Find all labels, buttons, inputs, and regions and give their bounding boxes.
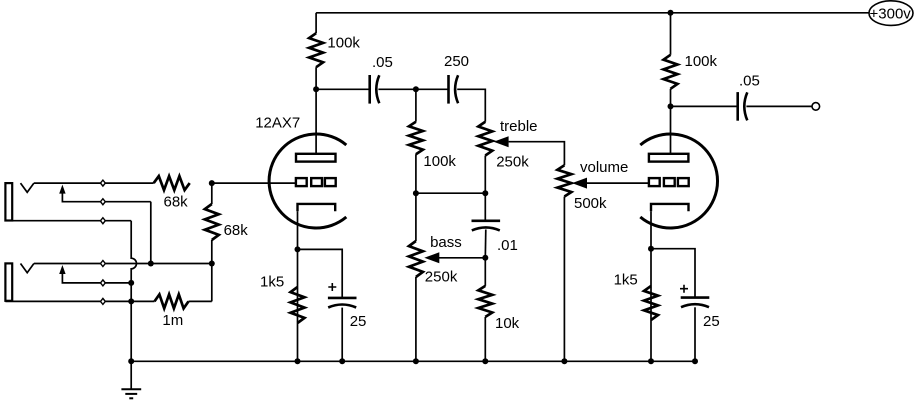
wire tone bottom [416, 192, 485, 194]
jack J1 sleeve pin [101, 218, 106, 224]
label .05 C1 [372, 54, 393, 71]
label 100k R1 [327, 35, 360, 52]
node bus c5 [692, 358, 698, 364]
power +300v supply [869, 1, 913, 26]
tube V1 envelope [269, 134, 346, 228]
svg-text:.05: .05 [739, 72, 760, 89]
resistor R7 68k grid stopper [154, 176, 190, 190]
wire top bus to R5 [670, 13, 672, 55]
jack J2 sleeve pin [101, 298, 106, 304]
jack J2 switch contact [59, 265, 131, 283]
wire J1 switch down to row4 [150, 202, 152, 264]
wire V1 cathode down [297, 211, 299, 361]
svg-text:+300v: +300v [870, 6, 912, 23]
node bus k2 [648, 358, 654, 364]
potentiometer VR2 bass 250k [409, 241, 439, 277]
node grid V1 input [209, 180, 215, 186]
node bus bass [413, 358, 419, 364]
jack J2 tip contact [21, 264, 34, 273]
wire bass wiper [439, 257, 486, 259]
wire C2 to treble pot [457, 89, 485, 121]
wire treble wiper to volume [509, 142, 565, 166]
wire plate node to C1 [316, 88, 370, 90]
svg-text:volume: volume [580, 159, 628, 176]
tube V1 plate [296, 154, 336, 162]
node bass wiper junction [482, 255, 488, 261]
wire V2 plate node to plate [670, 106, 672, 153]
node plate V2 [668, 103, 674, 109]
svg-text:25: 25 [350, 313, 367, 330]
wire C6 to output terminal [746, 105, 812, 107]
wire row4 to 1m corner [211, 264, 213, 302]
node bus 10k [482, 358, 488, 364]
wire C4 to ground bus [341, 308, 343, 362]
svg-text:1k5: 1k5 [260, 274, 284, 291]
wire 68k node down [211, 183, 213, 204]
svg-text:.01: .01 [497, 237, 518, 254]
svg-text:68k: 68k [224, 222, 249, 239]
wire top B+ bus [316, 12, 869, 14]
resistor R6 1k5 cathode V2 [644, 286, 658, 320]
svg-text:250k: 250k [496, 154, 529, 171]
label 250k VR2 [425, 268, 458, 285]
jack J1 switch contact [59, 185, 151, 202]
node R8 bottom row4 [209, 261, 215, 267]
wire 1m to corner [189, 300, 212, 302]
resistor R4 1k5 cathode V1 [291, 287, 305, 323]
label 250 C2 [444, 53, 469, 70]
wire top bus to R1 [315, 13, 317, 33]
tube V2 grid [649, 178, 689, 186]
svg-text:25: 25 [703, 313, 720, 330]
wire volume pot to ground bus [563, 197, 565, 362]
wire C1 to node [378, 88, 416, 90]
jack J1 body [5, 183, 12, 220]
capacitor C1 .05 coupling [370, 75, 380, 104]
wire treble bottom to C3 [484, 193, 486, 221]
node cathode V1 [295, 246, 301, 252]
label 250k VR1 [496, 154, 529, 171]
wire node to C2 [416, 88, 449, 90]
svg-text:68k: 68k [164, 194, 189, 211]
tube V1 cathode [298, 204, 336, 211]
wire slope node to bass pot [415, 193, 417, 241]
ground symbol [121, 361, 141, 398]
node treble bottom [482, 190, 488, 196]
wire J1 sleeve row [5, 220, 131, 222]
wire C3 to bass wiper node [484, 230, 487, 258]
wire grid V1 [212, 182, 296, 184]
capacitor C3 .01 [472, 221, 501, 231]
capacitor C6 .05 output [738, 92, 748, 121]
svg-text:250: 250 [444, 53, 469, 70]
node bus c4 [339, 358, 345, 364]
label treble [500, 118, 538, 135]
wire tone node down [415, 89, 417, 121]
wire V2 cathode down [650, 211, 652, 361]
label 100k R2 [423, 153, 456, 170]
wire treble pot to bottom node [484, 156, 486, 194]
svg-text:250k: 250k [425, 268, 458, 285]
label 1m R9 [162, 312, 183, 329]
node top bus / plate resistor 2 junction [668, 10, 674, 16]
node bus k1 [295, 358, 301, 364]
tube V1 grid [296, 178, 336, 186]
node tone input [413, 86, 419, 92]
label 12AX7 [255, 115, 300, 132]
wire J2 tip row [34, 263, 151, 265]
wire V2 plate node to C6 [671, 105, 738, 107]
wire C3 node to R3 [484, 258, 486, 286]
label .05 C6 [739, 72, 760, 89]
resistor R1 100k plate load V1 [309, 33, 323, 67]
potentiometer VR3 volume 500k [557, 165, 587, 196]
resistor R2 100k slope [409, 122, 423, 155]
wire cathode branch to C5 [651, 249, 695, 298]
label 1k5 R6 [614, 272, 638, 289]
capacitor C5 25 bypass [680, 285, 709, 308]
svg-text:100k: 100k [685, 53, 718, 70]
node bus gnd [128, 358, 134, 364]
svg-text:.05: .05 [372, 54, 393, 71]
label 25 C5 [703, 313, 720, 330]
svg-text:12AX7: 12AX7 [255, 115, 300, 132]
tube V2 cathode [651, 204, 689, 211]
wire plate node to V1 plate [315, 89, 317, 154]
tube V2 plate [649, 154, 689, 162]
label volume [580, 159, 628, 176]
node plate V1 [313, 86, 319, 92]
capacitor C4 25 bypass [328, 283, 357, 308]
svg-text:10k: 10k [495, 315, 520, 332]
svg-text:1m: 1m [162, 312, 183, 329]
node cathode V2 [648, 246, 654, 252]
svg-text:100k: 100k [327, 35, 360, 52]
label 25 C4 [350, 313, 367, 330]
jack J2 body [5, 263, 12, 300]
jack J1 switch pin [101, 199, 106, 205]
label 68k R8 [224, 222, 249, 239]
wire C5 to ground bus [694, 307, 696, 361]
jack J2 tip pin [101, 261, 106, 267]
wire row4 junctions [151, 263, 212, 265]
label .01 C3 [497, 237, 518, 254]
label 100k R5 [685, 53, 718, 70]
wire J1 tip row [34, 182, 154, 184]
label 10k R3 [495, 315, 520, 332]
resistor R8 68k shunt [205, 204, 219, 240]
wire R2 to tone bottom node [415, 154, 417, 193]
resistor R3 10k [478, 286, 492, 317]
node switch1 tip2 junction [148, 261, 154, 267]
svg-text:100k: 100k [423, 153, 456, 170]
label 1k5 R4 [260, 274, 284, 291]
wire volume wiper to V2 grid [587, 182, 649, 184]
wire ground column with hop [131, 221, 136, 362]
resistor R5 100k plate load V2 [664, 55, 678, 89]
svg-text:1k5: 1k5 [614, 272, 638, 289]
capacitor C2 250 treble [449, 75, 459, 104]
svg-text:500k: 500k [574, 195, 607, 212]
svg-text:bass: bass [430, 234, 462, 251]
potentiometer VR1 treble 250k [478, 122, 508, 156]
jack J1 tip pin [101, 180, 106, 186]
output terminal [812, 103, 820, 111]
wire R3 to ground bus [484, 317, 486, 361]
label bass [430, 234, 462, 251]
wire bass pot to ground bus [415, 277, 417, 361]
wire R8 to row4 [211, 240, 213, 264]
wire R1 to plate node [315, 67, 317, 89]
node bus vol [561, 358, 567, 364]
wire cathode branch to C4 [298, 249, 343, 298]
jack J2 switch pin [101, 280, 106, 286]
tube V2 envelope [640, 134, 717, 228]
svg-text:treble: treble [500, 118, 538, 135]
node J2 switch to ground [128, 280, 134, 286]
wire R5 to plate node [670, 89, 672, 107]
label 500k VR3 [574, 195, 607, 212]
wire J2 sleeve row [5, 300, 154, 302]
resistor R9 1m [155, 294, 189, 308]
wire ground bus [131, 360, 695, 362]
jack J1 tip contact [21, 183, 34, 192]
node slope bottom [413, 190, 419, 196]
label 68k R7 [164, 194, 189, 211]
node J2 sleeve to ground [128, 298, 134, 304]
